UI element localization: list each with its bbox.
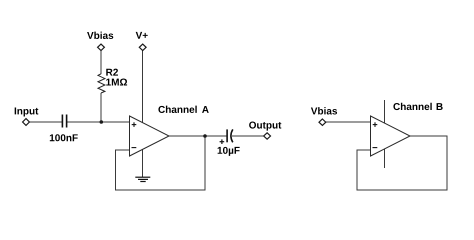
label V+ xyxy=(136,32,148,39)
op-amp U1A triangle xyxy=(130,116,170,156)
capacitor C2 10uF polarized xyxy=(227,129,233,142)
wire op-amp A output to C2 xyxy=(169,135,226,137)
terminal V+ xyxy=(139,44,146,50)
label Channel B word xyxy=(393,103,431,110)
terminal Output xyxy=(264,133,271,139)
wire Input to C1 xyxy=(29,121,62,123)
terminal Vbias A xyxy=(98,44,105,50)
resistor R2 zigzag xyxy=(98,74,105,93)
wire C1 to node A and op-amp plus input xyxy=(67,121,130,123)
label Vbias A xyxy=(87,32,113,39)
label Channel A letter xyxy=(202,106,209,113)
plus sign input A xyxy=(132,122,137,127)
capacitor C1 100nF xyxy=(62,115,66,128)
label Channel A word xyxy=(158,106,196,113)
wire V- pin to ground xyxy=(142,149,144,177)
label 100nF xyxy=(50,134,78,141)
label 1M ohm xyxy=(106,79,127,86)
node OUT junction dot xyxy=(203,134,207,138)
plus sign input B xyxy=(373,122,378,127)
wire Vbias B to op-amp B plus input xyxy=(326,121,371,123)
wire feedback A: minus input around to output node xyxy=(116,136,206,190)
label Input xyxy=(15,108,39,117)
label R2 xyxy=(106,69,118,76)
label Channel B letter xyxy=(437,103,443,110)
terminal Vbias B xyxy=(319,119,326,125)
label Vbias B xyxy=(311,107,337,114)
node A junction dot xyxy=(100,120,104,124)
label 10uF xyxy=(218,147,240,156)
plus polarity mark C2 xyxy=(220,139,225,144)
wire R2 to node A xyxy=(100,93,102,122)
wire feedback B: minus input around to output xyxy=(357,136,447,190)
ground xyxy=(135,177,150,181)
label Output xyxy=(249,122,281,131)
wire V+ stub B xyxy=(384,100,386,123)
wire Vbias to R2 xyxy=(100,51,102,74)
op-amp U1B triangle xyxy=(371,116,411,156)
terminal Input xyxy=(23,119,30,126)
wire V+ to op-amp A V+ pin xyxy=(142,51,144,123)
minus sign input B xyxy=(373,147,378,149)
wire V- stub B xyxy=(384,149,386,168)
minus sign input A xyxy=(132,147,137,149)
wire C2 to Output terminal xyxy=(232,135,264,137)
